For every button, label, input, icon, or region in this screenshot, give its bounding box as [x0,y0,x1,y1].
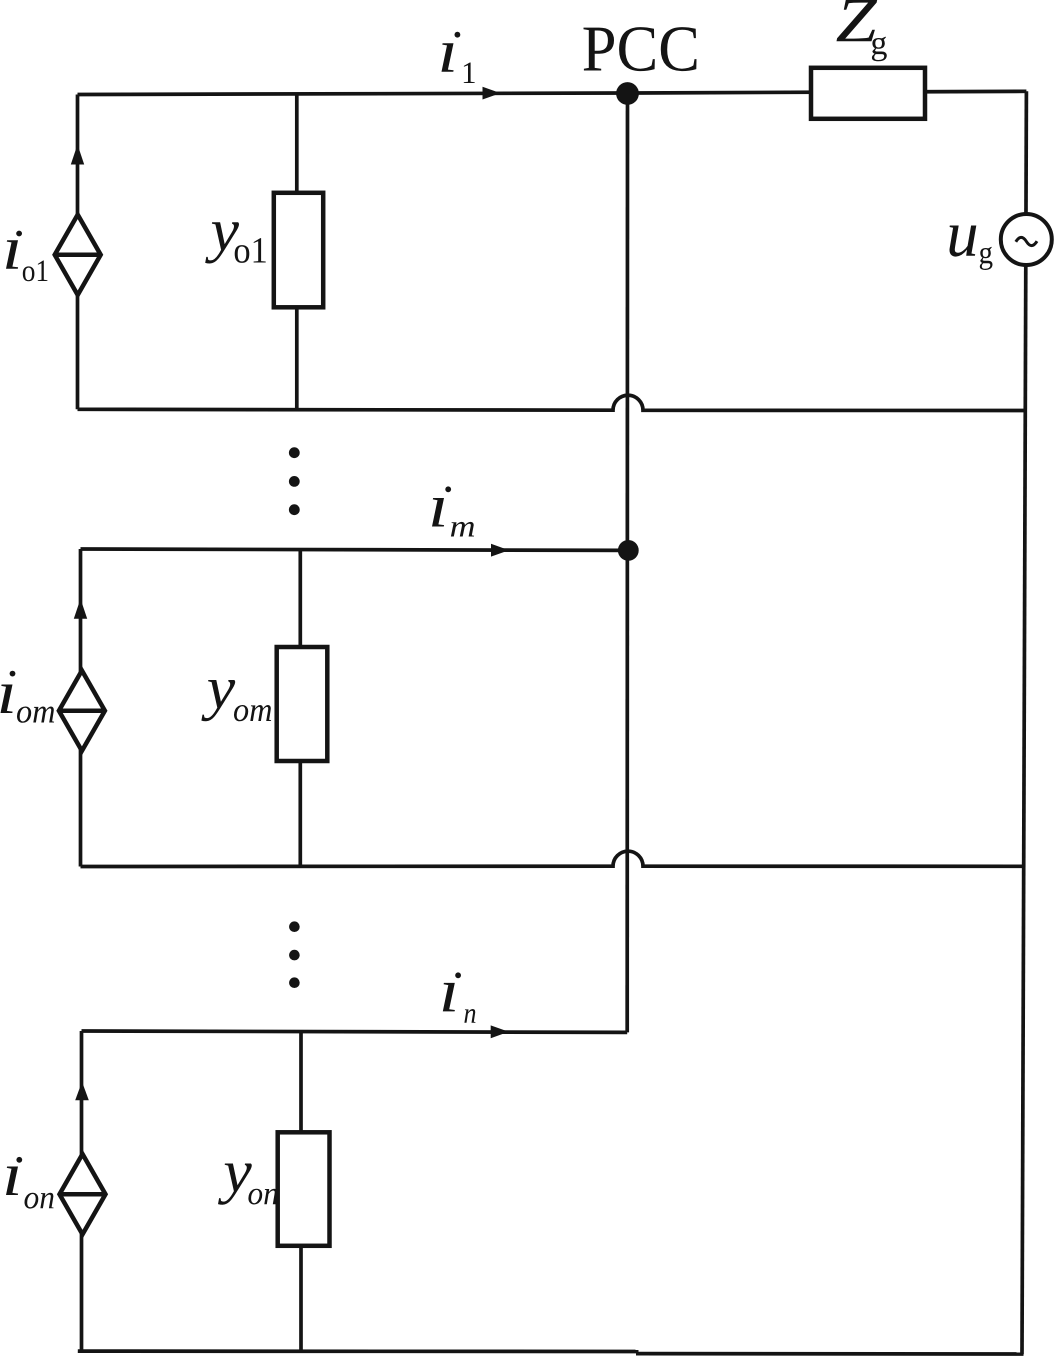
label in [443,983,455,1012]
wire return branch 1 with hop over PCC bus [78,395,1026,410]
wire bottom return right segment [636,1352,1024,1356]
label im [432,498,444,527]
wire right vertical grid conductor [1022,91,1026,1354]
admittance yon rectangle [278,1132,330,1246]
current source ion diamond [60,1154,106,1234]
node PCC junction dot [616,82,639,105]
node label PCC [584,27,697,71]
wire PCC vertical bus [625,93,629,1032]
wire top branch 3 [82,1031,628,1032]
label iom [1,685,13,714]
arrowhead current ion up [75,1082,89,1101]
wire shunt vertical branch 2 [298,550,302,867]
label yom [201,680,235,721]
arrowhead current io1 up [71,145,84,165]
ellipsis dots between branch m and n [289,921,300,932]
wire shunt vertical branch 3 [299,1032,303,1352]
admittance yo1 rectangle [274,193,323,307]
wire left vertical branch 1 [76,95,80,410]
wire shunt vertical branch 1 [295,94,299,410]
wire bottom return left segment [78,1349,639,1353]
wire left vertical branch 3 [80,1031,84,1351]
wire return branch 2 with hop over PCC bus [81,851,1024,866]
arrowhead i1 right [483,87,501,100]
voltage source ug circle [1001,214,1052,265]
label ion [6,1167,18,1196]
arrowhead in right [491,1025,509,1038]
label yon [218,1164,252,1205]
label io1 [6,240,18,269]
label ug [950,226,977,257]
label Zg [837,0,878,41]
label i1 [442,43,454,72]
wire top branch 2 [81,549,628,550]
ellipsis dots between branch 1 and m [289,447,300,458]
current source io1 diamond [55,215,101,295]
admittance yom rectangle [277,647,328,761]
node im junction dot [618,540,639,561]
arrowhead im right [491,544,509,557]
wire top bus from converter 1 to grid [78,91,1027,94]
current source iom diamond [59,671,105,751]
arrowhead current iom up [74,599,87,619]
voltage source ug sine symbol [1016,237,1037,245]
label yo1 [205,222,239,263]
wire left vertical branch 2 [79,549,83,867]
impedance Zg rectangle [811,68,925,119]
